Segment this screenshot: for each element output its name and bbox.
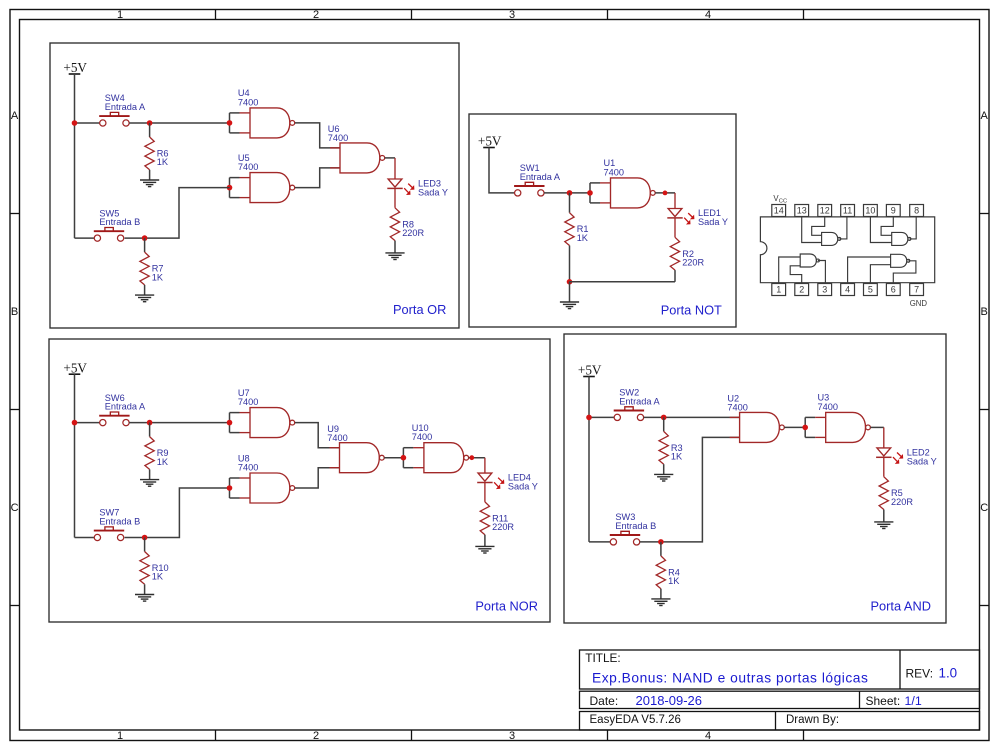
LED LED2 (Sada Y)	[876, 448, 937, 467]
svg-text:1: 1	[117, 730, 123, 742]
wire +5V rail down	[588, 377, 590, 542]
power flag +5V (Porta NOR)	[63, 360, 87, 375]
svg-text:6: 6	[891, 285, 896, 295]
svg-text:1/1: 1/1	[905, 694, 922, 708]
wire SW7 to U8 input	[125, 488, 230, 538]
svg-text:Entrada B: Entrada B	[99, 516, 140, 526]
junction node U1 output	[663, 191, 668, 196]
NAND gate U5 (7400, tied inputs)	[227, 153, 295, 203]
svg-text:9: 9	[891, 206, 896, 216]
junction node SW6/R9	[147, 420, 153, 426]
svg-text:Drawn By:: Drawn By:	[786, 714, 839, 726]
ground below R9	[140, 480, 159, 487]
IC internal gate (pins 10,9 -> 8)	[870, 217, 916, 246]
wire SW6 to U7 input	[129, 422, 229, 424]
resistor R7 (1K)	[140, 238, 164, 295]
frame row tick	[980, 213, 990, 215]
switch SW4 (Entrada A)	[99, 93, 146, 126]
wire U9 output to U10	[384, 457, 403, 459]
NAND gate U1 (7400, tied inputs)	[587, 158, 655, 208]
junction node SW7/R10	[142, 535, 148, 541]
svg-text:C: C	[980, 502, 988, 514]
circuit box Porta NOR	[49, 339, 550, 622]
svg-text:B: B	[981, 306, 988, 318]
IC pin 14	[772, 205, 786, 217]
wire SW5 to U5 input	[125, 188, 230, 239]
IC package 7400 body	[760, 217, 934, 283]
ground below R7	[135, 295, 154, 302]
frame column tick	[803, 730, 805, 741]
wire U1 output to LED1	[655, 192, 675, 194]
wire U8 output to U9 input B	[295, 468, 340, 488]
wire rail to SW6	[75, 422, 100, 424]
svg-text:4: 4	[705, 9, 711, 21]
circuit box Porta AND	[564, 334, 946, 623]
svg-text:7400: 7400	[238, 397, 258, 407]
svg-text:7: 7	[914, 285, 919, 295]
junction node SW2/R3	[661, 415, 667, 421]
NAND gate U10 (7400, tied inputs)	[401, 423, 469, 473]
svg-text:Sheet:: Sheet:	[866, 694, 901, 708]
ground below R4	[651, 599, 670, 606]
wire rail to SW7	[75, 537, 95, 539]
junction node SW3/R4	[658, 539, 664, 545]
resistor R1 (1K)	[565, 193, 589, 282]
wire (red) to LED3 anode	[394, 158, 396, 179]
junction node SW4/R6	[147, 120, 153, 126]
IC internal gate (pins 1,2 -> 3)	[779, 254, 826, 284]
svg-text:1K: 1K	[668, 576, 680, 586]
IC pin 3	[818, 284, 832, 296]
ground below R6	[140, 180, 159, 187]
ground below R3	[654, 474, 673, 481]
ground below R8	[385, 253, 404, 260]
svg-text:1K: 1K	[577, 233, 589, 243]
wire (red) to LED2 anode	[883, 427, 885, 448]
svg-text:B: B	[11, 306, 18, 318]
wire U10 output to LED4	[469, 457, 485, 459]
NAND gate U6 (7400)	[328, 124, 385, 173]
svg-text:Entrada B: Entrada B	[99, 217, 140, 227]
svg-text:2018-09-26: 2018-09-26	[636, 693, 703, 708]
svg-text:Sada Y: Sada Y	[907, 457, 937, 467]
svg-text:Sada Y: Sada Y	[508, 482, 538, 492]
svg-text:7400: 7400	[412, 432, 432, 442]
resistor R11 (220R)	[480, 502, 514, 547]
svg-text:Porta AND: Porta AND	[871, 598, 931, 613]
svg-text:TITLE:: TITLE:	[585, 651, 620, 665]
svg-text:REV:: REV:	[906, 666, 934, 680]
switch SW5 (Entrada B)	[94, 208, 140, 241]
ground Porta NOT	[560, 302, 579, 309]
svg-text:220R: 220R	[402, 228, 424, 238]
LED LED3 (Sada Y)	[387, 179, 448, 198]
junction node R1/ground/return	[567, 279, 573, 285]
svg-text:1K: 1K	[152, 572, 164, 582]
switch SW2 (Entrada A)	[614, 388, 661, 421]
svg-text:2: 2	[313, 9, 319, 21]
title block	[580, 650, 980, 730]
svg-text:Exp.Bonus: NAND e outras porta: Exp.Bonus: NAND e outras portas lógicas	[592, 671, 868, 686]
svg-text:1K: 1K	[157, 157, 169, 167]
svg-text:4: 4	[845, 285, 850, 295]
svg-text:+5V: +5V	[63, 360, 87, 375]
svg-text:CC: CC	[779, 198, 787, 204]
junction node rail/SW6	[72, 420, 78, 426]
circuit box Porta OR	[50, 43, 459, 328]
svg-text:3: 3	[822, 285, 827, 295]
wire U5 output to U6 input B	[295, 168, 340, 188]
NAND gate U8 (7400, tied inputs)	[227, 453, 295, 503]
wire LED2 to R5 (red)	[883, 457, 885, 476]
frame column tick	[215, 10, 217, 20]
svg-text:EasyEDA V5.7.26: EasyEDA V5.7.26	[590, 714, 681, 726]
wire LED3 to R8 (red)	[394, 188, 396, 207]
wire SW2 to U2 input A	[644, 416, 740, 418]
svg-text:Porta OR: Porta OR	[393, 302, 446, 317]
wire +5V rail down	[74, 74, 76, 238]
IC pin 4	[841, 284, 855, 296]
wire to ground	[569, 282, 571, 302]
ground below R5	[874, 522, 893, 529]
svg-text:5: 5	[868, 285, 873, 295]
svg-text:+5V: +5V	[63, 60, 87, 75]
junction node rail/SW2	[586, 415, 592, 421]
frame row tick	[10, 409, 20, 411]
junction node SW5/R7	[142, 235, 148, 241]
wire rail to SW3	[589, 541, 610, 543]
IC pin 2	[795, 284, 809, 296]
power flag +5V (Porta NOT)	[478, 134, 502, 149]
wire +5V to SW1	[489, 148, 515, 193]
wire LED4 to R11 (red)	[484, 483, 486, 502]
resistor R5 (220R)	[879, 477, 913, 522]
svg-text:Entrada A: Entrada A	[105, 402, 146, 412]
svg-text:7400: 7400	[238, 462, 258, 472]
svg-text:220R: 220R	[682, 258, 704, 268]
svg-text:C: C	[11, 502, 19, 514]
svg-text:1: 1	[117, 9, 123, 21]
svg-text:7400: 7400	[328, 133, 348, 143]
svg-text:1K: 1K	[152, 272, 164, 282]
svg-text:4: 4	[705, 730, 711, 742]
frame row tick	[10, 213, 20, 215]
frame column tick	[607, 10, 609, 20]
IC internal gate (pins 4,5 -> 6)	[848, 254, 916, 283]
svg-text:220R: 220R	[492, 522, 514, 532]
frame column tick	[803, 10, 805, 20]
svg-text:1.0: 1.0	[939, 666, 958, 681]
wire rail to SW2	[589, 416, 614, 418]
svg-text:11: 11	[843, 206, 852, 216]
frame column tick	[215, 730, 217, 741]
svg-text:7400: 7400	[604, 167, 624, 177]
svg-text:2: 2	[313, 730, 319, 742]
svg-text:Porta NOT: Porta NOT	[661, 303, 722, 318]
svg-text:+5V: +5V	[578, 363, 602, 378]
wire U3 output to LED2	[870, 426, 883, 428]
frame row tick	[980, 409, 990, 411]
wire U7 output to U9 input A	[295, 423, 340, 448]
IC pin 7	[910, 284, 924, 296]
svg-text:Sada Y: Sada Y	[698, 217, 728, 227]
circuit box Porta NOT	[469, 114, 736, 327]
IC pin 9	[886, 205, 900, 217]
svg-text:1K: 1K	[671, 452, 683, 462]
ground below R11	[475, 546, 494, 553]
svg-text:A: A	[981, 110, 989, 122]
wire U6 output to LED3	[385, 157, 395, 159]
frame column tick	[411, 10, 413, 20]
wire U2 output to U3	[784, 426, 805, 428]
wire (red) to LED4 anode	[484, 458, 486, 473]
svg-text:Sada Y: Sada Y	[418, 188, 448, 198]
NAND gate U4 (7400, tied inputs)	[227, 88, 295, 138]
svg-text:10: 10	[865, 206, 875, 216]
wire (red) to LED1 anode	[674, 193, 676, 209]
resistor R6 (1K)	[145, 123, 169, 180]
svg-text:GND: GND	[910, 299, 928, 308]
NAND gate U7 (7400, tied inputs)	[227, 388, 295, 438]
svg-text:1: 1	[776, 285, 781, 295]
resistor R4 (1K)	[656, 542, 680, 599]
frame column tick	[411, 730, 413, 741]
resistor R8 (220R)	[390, 208, 424, 253]
power label VCC	[773, 194, 787, 204]
wire SW4 to U4 input	[129, 122, 229, 124]
frame row tick	[10, 605, 20, 607]
resistor R9 (1K)	[145, 423, 169, 480]
svg-text:2: 2	[799, 285, 804, 295]
wire SW1 to U1 input	[544, 192, 590, 194]
svg-text:Entrada B: Entrada B	[615, 521, 656, 531]
switch SW1 (Entrada A)	[514, 163, 561, 196]
LED LED4 (Sada Y)	[477, 473, 538, 492]
wire rail to SW5	[75, 237, 95, 239]
switch SW3 (Entrada B)	[610, 512, 656, 545]
svg-text:Porta NOR: Porta NOR	[475, 598, 538, 613]
svg-text:1K: 1K	[157, 457, 169, 467]
IC pin 12	[818, 205, 832, 217]
svg-text:7400: 7400	[238, 97, 258, 107]
resistor R3 (1K)	[659, 417, 683, 474]
svg-text:Entrada A: Entrada A	[619, 396, 660, 406]
svg-text:3: 3	[509, 9, 515, 21]
IC pin 8	[910, 205, 924, 217]
wire rail to SW4	[75, 122, 100, 124]
resistor R2 (220R)	[670, 237, 704, 281]
wire +5V rail down	[74, 374, 76, 537]
svg-text:8: 8	[914, 206, 919, 216]
NAND gate U2 (7400)	[727, 394, 784, 443]
NAND gate U3 (7400, tied inputs)	[802, 393, 870, 443]
switch SW6 (Entrada A)	[99, 393, 146, 426]
svg-text:7400: 7400	[818, 402, 838, 412]
svg-text:3: 3	[509, 730, 515, 742]
IC pin 6	[886, 284, 900, 296]
frame row tick	[980, 605, 990, 607]
ground below R10	[135, 595, 154, 602]
svg-text:7400: 7400	[727, 403, 747, 413]
svg-text:7400: 7400	[238, 162, 258, 172]
svg-text:Date:: Date:	[590, 694, 619, 708]
IC pin 13	[795, 205, 809, 217]
power flag +5V (Porta AND)	[578, 363, 602, 378]
IC pin 11	[841, 205, 855, 217]
svg-text:7400: 7400	[327, 433, 347, 443]
wire SW3 to U2 input B	[640, 437, 740, 542]
NAND gate U9 (7400)	[327, 424, 384, 473]
resistor R10 (1K)	[140, 538, 169, 595]
IC internal gate (pins 13,12 -> 11)	[802, 217, 847, 246]
junction node SW1/R1	[567, 190, 573, 196]
wire U4 output to U6 input A	[295, 123, 340, 148]
IC pin 10	[864, 205, 878, 217]
junction node rail/SW4	[72, 120, 78, 126]
svg-text:A: A	[11, 110, 19, 122]
LED LED1 (Sada Y)	[667, 208, 728, 227]
svg-text:12: 12	[820, 206, 830, 216]
frame column tick	[607, 730, 609, 741]
svg-text:220R: 220R	[891, 497, 913, 507]
svg-text:14: 14	[774, 206, 784, 216]
wire R2 return to ground node	[570, 281, 676, 283]
svg-text:+5V: +5V	[478, 134, 502, 149]
power flag +5V (Porta OR)	[63, 60, 87, 75]
svg-text:Entrada A: Entrada A	[520, 172, 561, 182]
IC pin 5	[864, 284, 878, 296]
junction node U10 output	[469, 455, 474, 460]
wire LED1 to R2 (red)	[674, 218, 676, 237]
IC pin 1	[772, 284, 786, 296]
switch SW7 (Entrada B)	[94, 508, 140, 541]
svg-text:13: 13	[797, 206, 807, 216]
svg-text:Entrada A: Entrada A	[105, 102, 146, 112]
